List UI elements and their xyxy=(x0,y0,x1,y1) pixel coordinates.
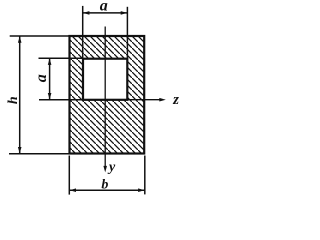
dimension line a (top) xyxy=(83,12,128,14)
arrowhead up of dimension h xyxy=(18,36,22,43)
extension line bottom of dimension h xyxy=(9,153,69,155)
dimension line h (vertical) xyxy=(19,36,21,154)
arrowhead down of dimension h xyxy=(18,147,22,154)
extension line right of dimension b xyxy=(144,156,146,195)
dimension line b (bottom) xyxy=(69,189,145,191)
svg-text:a: a xyxy=(100,0,108,14)
arrowhead right of dimension a (top) xyxy=(121,11,128,15)
arrowhead left of dimension b xyxy=(70,188,77,192)
dimension line a (left, vertical) xyxy=(49,58,51,99)
arrowhead right of dimension b xyxy=(138,188,145,192)
arrowhead down of dimension a (left) xyxy=(48,93,52,100)
hole (white inner square) xyxy=(83,59,127,100)
svg-text:h: h xyxy=(6,96,21,104)
arrowhead left of dimension a (top) xyxy=(83,11,90,15)
inner square border xyxy=(83,59,127,100)
arrowhead of z axis xyxy=(159,98,166,102)
extension line right of top dimension a xyxy=(126,7,128,58)
hatched section area xyxy=(70,36,145,154)
z axis line xyxy=(127,99,160,101)
arrowhead of y axis xyxy=(103,166,107,173)
svg-text:y: y xyxy=(107,160,116,175)
outer rectangle border xyxy=(70,36,145,154)
extension line top of dimension h xyxy=(10,35,69,37)
extension line bottom of left dimension a xyxy=(39,99,83,101)
arrowhead up of dimension a (left) xyxy=(48,58,52,65)
extension line top of left dimension a xyxy=(39,57,84,59)
svg-text:z: z xyxy=(172,92,179,108)
extension line left of top dimension a xyxy=(82,6,84,58)
extension line left of dimension b xyxy=(68,156,70,195)
y axis centerline xyxy=(104,27,106,167)
svg-text:b: b xyxy=(101,177,108,192)
svg-text:a: a xyxy=(33,74,50,82)
